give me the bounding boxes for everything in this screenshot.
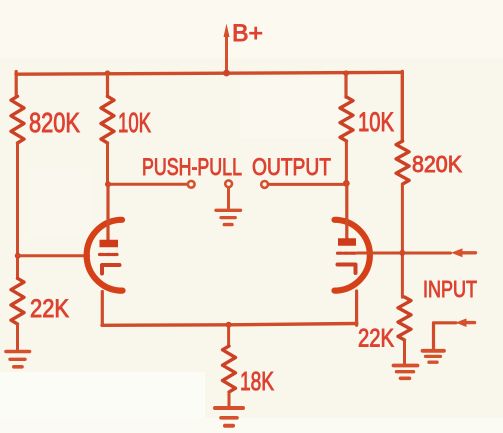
svg-text:PUSH-PULL: PUSH-PULL <box>142 154 242 181</box>
node output right junction <box>343 180 350 187</box>
wire column4 middle <box>401 184 404 297</box>
B+ terminal arrow <box>224 24 230 38</box>
resistor R2 22K left <box>11 278 24 324</box>
node grid right junction <box>399 250 405 256</box>
resistor R1 820K left <box>11 96 24 143</box>
label INPUT <box>423 276 477 302</box>
label B+ <box>232 20 263 47</box>
wire left column upper <box>15 72 18 97</box>
node B+ junction <box>223 70 230 77</box>
node left grid junction <box>15 253 21 259</box>
resistor R7 18K <box>223 346 236 392</box>
svg-text:22K: 22K <box>358 325 394 353</box>
wire output right lead <box>268 183 346 186</box>
svg-text:18K: 18K <box>240 366 274 396</box>
terminal output center circle <box>225 180 232 187</box>
node rail column3 junction <box>343 70 349 76</box>
label 18K <box>240 366 274 396</box>
wire column3 upper <box>344 73 347 97</box>
tube V1 cathode <box>102 265 120 274</box>
label 820K left <box>29 107 80 138</box>
wire 22K right to ground <box>403 340 406 363</box>
resistor R6 22K right <box>398 297 411 340</box>
wire column2 lower <box>106 143 109 184</box>
wire column3 lower <box>345 141 348 183</box>
wire left grid lead <box>18 254 89 257</box>
terminal output right circle <box>261 181 268 188</box>
wire 22K left to ground <box>16 324 19 350</box>
wire output left lead <box>108 183 187 186</box>
ground left 22K <box>6 352 30 367</box>
resistor R4 10K right <box>340 97 353 141</box>
label 10K right <box>358 107 394 137</box>
tube V1 plate lead <box>106 184 109 240</box>
wire left column middle <box>16 143 19 279</box>
terminal input bottom arrow <box>456 318 475 327</box>
label 22K right <box>358 325 394 353</box>
terminal input top arrow <box>451 248 476 257</box>
svg-text:820K: 820K <box>412 151 463 177</box>
label 10K left <box>118 107 151 138</box>
node output left junction <box>105 181 111 187</box>
tube V2 grid dashes <box>338 252 356 255</box>
node rail column2 junction <box>105 70 111 76</box>
label 820K right <box>412 151 463 177</box>
svg-text:22K: 22K <box>30 295 69 323</box>
wire 18K to ground <box>228 392 231 406</box>
wire output center ground stem <box>227 188 230 209</box>
wire V2 cathode lead <box>355 291 358 325</box>
svg-text:10K: 10K <box>358 107 394 137</box>
wire V1 cathode lead <box>101 292 104 326</box>
ground output center <box>216 210 241 224</box>
ground right 22K <box>394 366 418 379</box>
tube V2 envelope <box>335 220 370 291</box>
wire column2 upper <box>106 73 109 97</box>
tube V2 plate lead <box>345 183 348 238</box>
tube V1 grid dashes <box>100 253 118 256</box>
wire 18K upper lead <box>227 325 230 346</box>
svg-text:10K: 10K <box>118 107 151 138</box>
tube V2 plate <box>338 238 356 246</box>
svg-text:INPUT: INPUT <box>423 276 477 302</box>
tube V1 envelope <box>87 220 123 291</box>
resistor R5 820K right <box>396 141 409 184</box>
resistor R3 10K left <box>101 96 114 143</box>
svg-text:820K: 820K <box>29 107 80 138</box>
wire top B+ rail <box>16 72 402 74</box>
wire input lower corner <box>434 323 457 349</box>
label 22K left <box>30 295 69 323</box>
svg-text:OUTPUT: OUTPUT <box>252 154 331 181</box>
label PUSH-PULL OUTPUT <box>142 154 331 181</box>
node bottom rail 18K junction <box>226 322 232 328</box>
wire cathode bottom rail <box>102 324 357 326</box>
wire V2 grid lead input <box>357 252 451 255</box>
tube V2 cathode <box>338 265 356 274</box>
svg-text:B+: B+ <box>232 20 263 47</box>
wire right column4 upper <box>401 72 404 142</box>
ground input <box>423 351 445 362</box>
ground 18K <box>215 408 243 426</box>
terminal output left circle <box>188 181 195 188</box>
wire B+ stem <box>225 35 228 73</box>
tube V1 plate <box>100 240 119 248</box>
